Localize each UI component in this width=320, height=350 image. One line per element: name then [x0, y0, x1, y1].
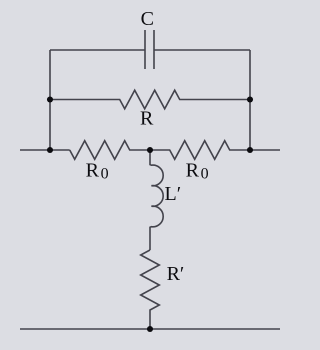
node junction dot left middle	[47, 147, 53, 153]
node junction dot left R row	[47, 96, 53, 102]
node junction dot center middle	[147, 147, 153, 153]
svg-text:C: C	[141, 8, 154, 30]
wire top-left C branch	[50, 49, 145, 51]
wire middle right stub	[250, 149, 280, 151]
capacitor C plates	[145, 30, 154, 69]
wire middle left stub	[20, 149, 70, 151]
node junction dot right R row	[247, 96, 253, 102]
wire left rail	[49, 50, 51, 150]
svg-text:R: R	[140, 108, 154, 130]
resistor R0 left	[70, 141, 150, 160]
svg-text:L′: L′	[165, 183, 182, 205]
wire right rail	[249, 50, 251, 150]
inductor L'	[150, 150, 163, 250]
svg-text:R′: R′	[167, 263, 185, 285]
wire bottom	[20, 328, 280, 330]
resistor R	[50, 90, 250, 109]
node junction dot right middle	[247, 147, 253, 153]
wire top-right C branch	[154, 49, 250, 51]
resistor R0 right	[150, 141, 250, 160]
resistor R'	[141, 250, 160, 329]
node junction dot bottom	[147, 326, 153, 332]
